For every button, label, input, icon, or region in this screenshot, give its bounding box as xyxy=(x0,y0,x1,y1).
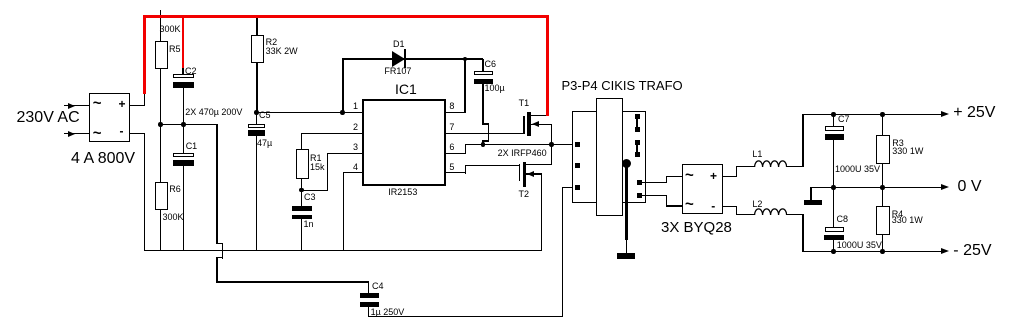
wire plus out xyxy=(723,176,737,177)
bridge rectifier B1 230V box xyxy=(89,93,130,142)
wire C4 return bottom horizontal xyxy=(368,316,563,317)
wire pin5 jog up xyxy=(465,165,466,174)
text pin 2 xyxy=(345,123,358,132)
text C4 xyxy=(372,282,384,291)
arrow AC neutral xyxy=(68,131,75,137)
transistor T2 source arrowhead xyxy=(527,171,534,177)
text C2 xyxy=(185,67,197,76)
wire secondary b jog xyxy=(666,195,667,207)
text 1u 250V xyxy=(371,308,405,317)
transformer pin post 1 stem xyxy=(636,116,638,129)
node dot Vcc C5 xyxy=(254,110,259,115)
text out bridge - xyxy=(711,200,715,212)
text out bridge ~ top xyxy=(685,168,694,183)
wire C3 top lead xyxy=(301,190,302,206)
resistor R6 xyxy=(155,182,169,210)
wire R6 to ground rail xyxy=(160,210,161,251)
inductor L2 xyxy=(754,208,787,216)
text pin 5 xyxy=(449,163,454,172)
transistor T1 channel bar xyxy=(527,112,531,136)
wire AC neutral lead xyxy=(64,133,89,134)
wire R3 top lead xyxy=(882,114,883,135)
wire primary ground rail xyxy=(144,250,542,251)
text D1 xyxy=(393,40,405,49)
text IC1 xyxy=(395,82,417,96)
text R3 xyxy=(892,139,904,148)
text R5 xyxy=(169,45,181,54)
wire C4 branch jog b xyxy=(222,243,223,259)
resistor R2 xyxy=(251,35,265,63)
wire C5 top lead xyxy=(256,112,257,124)
wire T2 drain horizontal xyxy=(525,164,552,165)
transformer pin post 2 stem xyxy=(636,142,638,155)
wire T2 source drop to ground rail xyxy=(541,174,542,252)
wire riser to transformer pin xyxy=(562,187,576,188)
transformer pin post 2 top square xyxy=(635,140,640,145)
capacitor C3 plate bottom xyxy=(292,215,312,220)
transformer pin primary 1 xyxy=(575,142,580,147)
node dot R5 line xyxy=(158,122,163,127)
resistor R4 xyxy=(876,206,890,236)
node dot pin1 D1 xyxy=(340,110,345,115)
wire bridge plus out xyxy=(130,105,145,106)
text 100u xyxy=(485,84,505,93)
arrow AC live xyxy=(68,103,75,109)
wire gate line T2 xyxy=(465,165,520,166)
wire rail to R5 xyxy=(160,17,161,41)
inductor L1 xyxy=(754,160,787,168)
text 1n xyxy=(304,220,314,229)
capacitor C4 plate top xyxy=(360,293,379,299)
wire C8 top lead xyxy=(833,187,834,227)
text R6 xyxy=(169,185,181,194)
transformer pin secondary b xyxy=(637,193,642,198)
wire minus to L2 xyxy=(736,214,754,215)
wire C4 top lead xyxy=(368,282,369,294)
node dot center tap xyxy=(622,159,631,168)
wire CT link horizontal xyxy=(301,190,328,191)
wire secondary b out xyxy=(642,195,667,196)
capacitor C6 plate bottom xyxy=(474,79,493,85)
text 2X 470u 200V xyxy=(185,108,242,117)
transformer TR1 core box xyxy=(596,98,623,216)
text pin 6 xyxy=(449,143,454,152)
text C1 xyxy=(186,142,198,151)
node dot C2 C1 xyxy=(181,122,186,127)
wire C4 bottom lead xyxy=(368,307,369,317)
text R2 xyxy=(266,38,278,47)
wire C1 bottom lead xyxy=(183,166,184,250)
text 47u xyxy=(257,139,272,148)
arrow plus 25V xyxy=(941,111,949,117)
capacitor C2 plate bottom xyxy=(173,82,194,88)
transistor T2 gate bar xyxy=(519,164,521,181)
wire C5 bottom lead xyxy=(256,136,257,251)
text pin 4 xyxy=(345,163,358,172)
wire C8 bottom lead xyxy=(833,240,834,251)
text IR2153 xyxy=(388,188,417,197)
wire C1 top lead xyxy=(183,124,184,153)
node dot C7 top xyxy=(831,112,836,117)
text pin 3 xyxy=(345,143,358,152)
text 15k xyxy=(310,163,325,172)
text FR107 xyxy=(384,67,411,76)
wire C3 bottom lead xyxy=(301,219,302,251)
text 300K R5 value xyxy=(160,25,181,34)
text pin 1 xyxy=(345,102,358,111)
arrow zero V xyxy=(941,184,949,190)
text 33K 2W xyxy=(266,47,298,56)
node dot R3 R4 xyxy=(880,185,885,190)
wire VS line xyxy=(465,144,576,145)
wire C6 to VS line xyxy=(482,140,483,145)
text C7 xyxy=(838,115,850,124)
arrow minus 25V xyxy=(941,248,949,254)
wire center tap thick stem xyxy=(625,163,628,240)
capacitor C7 plate top xyxy=(825,126,844,131)
capacitor C5 plate bottom xyxy=(248,130,265,136)
wire plus jog up xyxy=(736,166,737,177)
transistor T2 source arrow line xyxy=(526,173,542,174)
text out bridge + xyxy=(710,170,717,182)
wire C4 branch horizontal xyxy=(216,281,369,282)
text 0 V xyxy=(958,179,982,195)
wire zero rail xyxy=(810,187,942,188)
text C8 xyxy=(837,215,849,224)
wire pin6 horizontal xyxy=(446,153,466,154)
capacitor C4 plate bottom xyxy=(360,302,379,307)
wire pin2 horizontal xyxy=(301,133,362,134)
wire R2 to Vcc node xyxy=(256,63,257,113)
capacitor C2 plate top xyxy=(173,74,194,78)
transformer TR1 winding box xyxy=(572,111,646,203)
capacitor C6 plate top xyxy=(474,71,493,75)
wire T1 drain top xyxy=(529,115,549,116)
wire node to R6 xyxy=(160,124,161,182)
text C6 xyxy=(485,60,497,69)
wire secondary b in xyxy=(666,205,682,206)
text 2X IRFP460 xyxy=(498,149,547,158)
wire C7 bottom lead xyxy=(833,140,834,188)
capacitor C8 plate top xyxy=(825,227,844,232)
capacitor C5 plate top xyxy=(248,124,265,128)
wire VB riser pin8 xyxy=(464,59,465,113)
diode D1 cathode bar xyxy=(404,49,406,68)
wire plus riser xyxy=(802,114,803,167)
wire AC live lead xyxy=(64,105,89,106)
node dot C6 VS xyxy=(481,142,486,147)
node dot D1 VB xyxy=(463,57,468,62)
transformer pin post 1 bottom square xyxy=(635,127,640,132)
wire center tap thin stem xyxy=(626,240,627,253)
wire C6 jog b xyxy=(488,123,489,141)
text bridge + xyxy=(119,98,126,110)
text 330 1W R3 xyxy=(892,147,923,156)
wire R1 bottom lead xyxy=(301,179,302,191)
wire secondary a in xyxy=(666,176,682,177)
text pin 7 xyxy=(449,123,454,132)
text 4 A 800V xyxy=(71,151,135,167)
wire L1 to riser xyxy=(786,166,803,167)
node dot C8 bottom xyxy=(831,249,836,254)
wire D1 anode riser xyxy=(342,59,343,113)
wire T1 source drop xyxy=(551,124,552,165)
capacitor C3 plate top xyxy=(292,206,312,211)
wire pin6 jog up xyxy=(465,144,466,154)
text 300K R6 value xyxy=(163,213,184,222)
wire minus riser down xyxy=(802,214,803,252)
wire pin5 horizontal xyxy=(446,172,466,173)
wire secondary a out xyxy=(642,182,667,183)
wire Vcc pin1 xyxy=(256,112,362,113)
text pin 8 xyxy=(449,102,454,111)
wire secondary a jog xyxy=(666,176,667,183)
wire C6 top corner xyxy=(482,59,483,72)
transformer pin primary 2 xyxy=(575,163,580,168)
node dot R4 bottom xyxy=(880,249,885,254)
node dot C7 C8 xyxy=(831,185,836,190)
ground bar center tap xyxy=(617,253,636,259)
wire D1 horizontal line xyxy=(342,58,483,59)
text bridge ~ bottom xyxy=(93,126,102,141)
transistor T1 source arrow line xyxy=(531,124,552,125)
wire pin4 horizontal xyxy=(343,172,362,173)
text 3X BYQ28 xyxy=(661,220,732,235)
node dot VS midpoint xyxy=(549,142,554,147)
node dot R3 top xyxy=(880,112,885,117)
wire R5 to node xyxy=(160,69,161,125)
wire C4 branch vertical from mid node xyxy=(216,124,217,244)
wire bridge minus drop xyxy=(144,133,145,251)
wire C2 bottom lead xyxy=(183,88,184,125)
wire R4 top lead xyxy=(882,187,883,206)
capacitor C1 plate top xyxy=(173,153,194,157)
text T1 xyxy=(519,99,530,108)
text C3 xyxy=(304,193,316,202)
text + 25V xyxy=(953,105,995,121)
wire rail to R2 xyxy=(256,17,257,35)
transformer pin post 1 top square xyxy=(635,114,640,119)
wire pin7 gate line T1 xyxy=(446,133,524,134)
wire pin3 horizontal xyxy=(327,153,363,154)
wire red drop to T1 drain xyxy=(546,15,549,116)
wire R4 bottom lead xyxy=(882,235,883,252)
text - 25V xyxy=(953,243,991,259)
text P3-P4 CIKIS TRAFO xyxy=(562,79,683,92)
wire C4 branch jog a xyxy=(216,243,223,244)
wire pin8 horizontal xyxy=(446,112,466,113)
text T2 xyxy=(519,190,530,199)
wire CT link vertical xyxy=(327,153,328,191)
ground bar zero volt xyxy=(804,200,823,205)
diode D1 triangle xyxy=(392,51,405,67)
wire HV+ red rail top xyxy=(143,15,548,18)
wire C4 branch vertical lower xyxy=(216,257,217,282)
wire zero drop to ground bar xyxy=(810,187,811,201)
capacitor C8 plate bottom xyxy=(824,235,844,241)
text out bridge ~ bottom xyxy=(685,197,694,212)
transistor T1 source arrowhead xyxy=(532,121,539,127)
transformer pin post 2 bottom square xyxy=(635,152,640,157)
capacitor C1 plate bottom xyxy=(173,160,194,166)
wire minus jog down xyxy=(736,206,737,215)
text L2 xyxy=(752,200,762,209)
text 230V AC xyxy=(17,110,80,126)
wire bridge minus out xyxy=(130,133,145,134)
wire R5 stub above rail xyxy=(160,10,161,17)
transformer pin primary 3 xyxy=(575,185,580,190)
wire L2 to riser xyxy=(786,214,803,215)
wire C4 return riser to transformer xyxy=(562,187,563,317)
wire minus out xyxy=(723,206,737,207)
node dot R1 C3 xyxy=(299,188,304,193)
wire C2 top lead xyxy=(182,66,183,75)
text 330 1W R4 xyxy=(892,216,923,225)
transformer pin secondary a xyxy=(637,180,642,185)
text 1000U 35V C7 xyxy=(835,165,880,174)
wire minus rail xyxy=(802,251,942,252)
wire C7 top lead xyxy=(833,114,834,126)
resistor R3 xyxy=(876,135,890,164)
capacitor C7 plate bottom xyxy=(825,134,845,140)
text C5 xyxy=(259,111,271,120)
wire R3 bottom lead xyxy=(882,164,883,189)
text R4 xyxy=(892,210,904,219)
text R1 xyxy=(310,154,322,163)
wire pin4 drop to ground rail xyxy=(343,172,344,251)
transistor T2 channel bar xyxy=(523,162,527,188)
wire red drop to C2 xyxy=(182,15,185,68)
resistor R5 xyxy=(155,41,169,69)
bridge rectifier output box xyxy=(682,164,724,215)
text bridge - xyxy=(120,125,124,137)
IC1 IR2153 box xyxy=(362,99,446,186)
wire C6 jog c xyxy=(482,140,489,141)
wire plus rail xyxy=(802,114,942,115)
wire bridge plus riser xyxy=(144,93,145,106)
text L1 xyxy=(752,150,762,159)
wire C6 lower lead xyxy=(482,84,483,124)
text bridge ~ top xyxy=(93,96,102,111)
resistor R1 xyxy=(296,149,310,179)
text 1000U 35V C8 xyxy=(837,241,882,250)
wire C4 branch jog c xyxy=(216,257,223,258)
wire mid node horizontal xyxy=(161,124,218,125)
wire plus to L1 xyxy=(736,166,754,167)
wire pin2 corner down to R1 xyxy=(301,133,302,150)
transistor T1 gate bar xyxy=(523,116,525,134)
wire C6 jog a xyxy=(482,123,489,124)
wire red drop to bridge plus xyxy=(143,15,146,94)
